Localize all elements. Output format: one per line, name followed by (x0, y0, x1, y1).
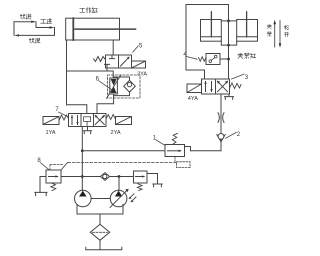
label 3 (232, 74, 249, 81)
wire: cylinder left port down (66, 40, 68, 105)
svg-text:1YA: 1YA (46, 130, 56, 136)
cycle diagram (work cycle step graph) (14, 21, 55, 37)
svg-text:4YA: 4YA (188, 96, 198, 102)
wire: right pump riser (118, 177, 120, 191)
label 5 (133, 43, 143, 52)
label 快进 (20, 14, 31, 19)
speed control valve 6 (one-way throttle, dashed enclosure) (107, 75, 140, 98)
node: rod-side junction (227, 20, 230, 23)
wire: branch to valve 5 bottom / throttle 6 top (67, 68, 114, 78)
wire: rod-side stub (221, 20, 236, 22)
node: cap-side junction (227, 44, 230, 47)
wire: suction lines (77, 204, 123, 224)
node: junction to relief valve 1 line (81, 149, 84, 152)
node: pressure switch tap (227, 58, 230, 61)
pressure switch 4 (199, 54, 229, 65)
wire: clamp circuit left frame (186, 5, 229, 80)
label 快退 (29, 38, 40, 43)
clamp cylinder left (201, 12, 222, 41)
wire: cap-side stub (221, 41, 236, 45)
relief valve (right pump) (134, 171, 163, 191)
suction filter (90, 224, 109, 240)
wire: clamp manifold column (228, 5, 230, 80)
wire: cylinder right port to valve 5 top (112, 40, 114, 55)
label 夹紧 (267, 25, 272, 37)
main tank (86, 247, 122, 250)
valve 3 (2-position 4-way solenoid valve, clamp) (187, 79, 241, 94)
pilot line (dashed) valve 8 to remote port of valve 1 (68, 162, 177, 164)
label 6 (96, 76, 111, 89)
fixed orifice (throttle) in clamp line (218, 113, 224, 123)
wire: valve 1 outlet to check valve column (191, 150, 222, 152)
valve 5 (2/2 solenoid valve) (94, 55, 146, 68)
wire: valve 7 P riser down to pump (81, 127, 83, 191)
unloading valve 8 (35, 163, 68, 196)
label 7 (55, 107, 67, 116)
check valve 2 (217, 134, 225, 142)
work cylinder (66, 18, 136, 40)
tank under valve 3 (225, 94, 234, 99)
label 夹紧缸 (clamp cylinders) (238, 53, 256, 59)
wire: valve 8 to pump junction (61, 176, 82, 178)
node: right pump junction (118, 175, 121, 178)
relief valve 1 (pilot operated, with remote port) (165, 133, 191, 167)
annotation arrows 夹紧 / 松开 (273, 20, 281, 48)
label 工进 (41, 19, 52, 24)
node: junction pump / unloader line (81, 175, 84, 178)
label 松开 (284, 25, 289, 36)
pump 1 (fixed displacement, left) (75, 190, 92, 207)
wire: pressure line to relief valve 1 (82, 150, 165, 152)
label 8 (37, 158, 48, 170)
pump 2 (variable displacement, right) (110, 189, 136, 208)
label 工作缸 (work cylinder) (80, 8, 98, 13)
wire: link between pumps (91, 198, 110, 200)
clamp cylinder right (237, 12, 258, 41)
wire: left port step to valve 7 port A (67, 105, 87, 114)
label 4 (183, 52, 197, 59)
svg-text:2YA: 2YA (111, 130, 121, 136)
valve 7 (3-position 4-way solenoid valve) (43, 114, 132, 127)
check valve between pumps (82, 173, 133, 181)
label 1 (153, 136, 166, 146)
wire: filter to tank (99, 240, 101, 249)
label 2 (226, 132, 241, 138)
wire: valve 6 bottom to valve 7 port B (97, 94, 114, 114)
wire: clamp branch column (220, 94, 222, 151)
tank under valve 7 (84, 127, 92, 134)
